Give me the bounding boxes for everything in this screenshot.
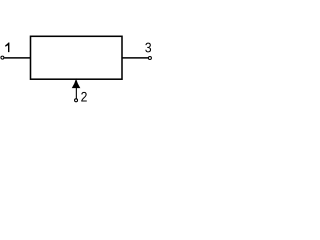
node 2 terminal circle — [75, 99, 78, 102]
pin 3 label — [145, 43, 151, 53]
node 3 terminal circle — [148, 57, 151, 60]
pin 1 label — [5, 43, 9, 53]
wire (terminal 2 up to arrow) — [75, 85, 77, 99]
wire (box right to terminal 3) — [122, 57, 148, 59]
potentiometer body (box) — [31, 36, 123, 79]
node 1 terminal circle — [1, 56, 4, 59]
wire (terminal 1 to box left) — [4, 57, 30, 59]
pin 2 label — [81, 92, 87, 102]
wiper arrowhead — [72, 80, 79, 88]
